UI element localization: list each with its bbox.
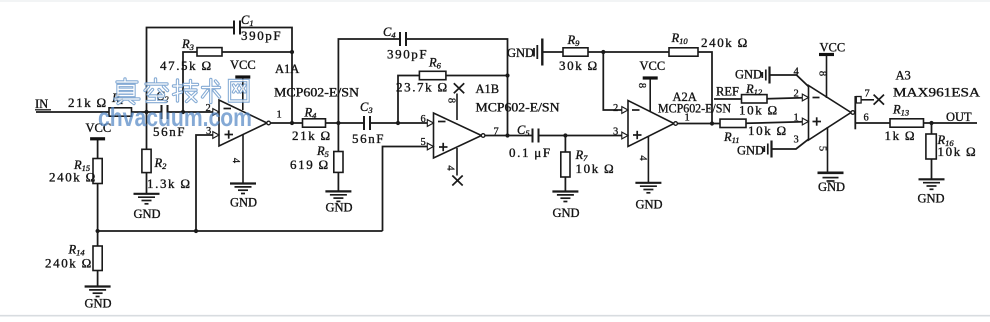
wire R7 to ground xyxy=(564,177,566,192)
svg-text:IN: IN xyxy=(35,97,48,111)
svg-text:3: 3 xyxy=(613,127,618,138)
resistor R5 xyxy=(290,144,343,172)
A3 output bar xyxy=(851,96,855,129)
ground under R16 xyxy=(918,179,945,205)
svg-text:GND: GND xyxy=(230,196,257,210)
svg-text:VCC: VCC xyxy=(640,59,666,73)
svg-text:10k Ω: 10k Ω xyxy=(739,103,779,118)
junction R4-R5-C4 xyxy=(336,121,340,125)
wire C1 feedback left rail xyxy=(147,28,234,113)
VCC supply A2A pin8 xyxy=(636,59,665,112)
resistor R4 xyxy=(292,106,332,144)
wire R15 to bus xyxy=(97,184,99,247)
resistor R2 xyxy=(142,149,192,191)
svg-text:GND: GND xyxy=(85,297,112,311)
A3 pin5 to ground xyxy=(817,127,828,172)
resistor R15 xyxy=(49,158,102,185)
svg-text:1: 1 xyxy=(277,110,282,121)
wire R6 right to rail xyxy=(446,75,508,77)
wire R16 to ground xyxy=(931,159,933,179)
svg-text:30k Ω: 30k Ω xyxy=(559,58,599,73)
junction bus R15-R14 xyxy=(96,229,100,233)
svg-text:GND: GND xyxy=(818,180,845,194)
svg-text:4: 4 xyxy=(637,155,648,161)
svg-text:A3: A3 xyxy=(896,69,911,83)
svg-text:chvacuum.com: chvacuum.com xyxy=(98,102,252,132)
junction R13-R16 xyxy=(929,121,933,125)
resistor R10 xyxy=(669,31,749,56)
resistor R3 xyxy=(160,37,222,73)
junction R3 to rail xyxy=(290,50,294,54)
svg-text:3: 3 xyxy=(794,135,799,146)
junction C5-R7 xyxy=(563,133,567,137)
ground under R7 xyxy=(552,192,579,221)
svg-text:GND: GND xyxy=(507,46,534,60)
ground label A3 pin3 xyxy=(737,141,772,158)
ground under R14 xyxy=(85,287,112,311)
svg-text:4: 4 xyxy=(445,165,456,171)
wire R16 branch xyxy=(931,123,933,134)
VCC supply A1A pin8 xyxy=(230,58,256,110)
svg-text:10k Ω: 10k Ω xyxy=(938,144,978,159)
svg-text:240k Ω: 240k Ω xyxy=(49,170,97,185)
junction R6 rail xyxy=(505,73,509,77)
svg-text:8: 8 xyxy=(817,71,828,76)
wire R5 branch xyxy=(337,123,339,152)
svg-text:GND: GND xyxy=(918,192,945,206)
wire A2A pin2 branch xyxy=(603,52,627,110)
svg-text:5: 5 xyxy=(817,146,828,151)
svg-text:5: 5 xyxy=(421,137,426,148)
wire bias bus bottom xyxy=(98,230,383,232)
junction C3-R6 xyxy=(396,121,400,125)
svg-text:7: 7 xyxy=(865,89,870,100)
svg-text:2: 2 xyxy=(794,89,799,100)
resistor R16 xyxy=(926,133,977,159)
svg-text:4: 4 xyxy=(794,67,800,78)
A3 pin7 no-connect xyxy=(856,89,884,105)
capacitor C1 xyxy=(234,13,282,43)
wire gnd to A3 pin3 xyxy=(773,139,809,149)
svg-text:A1B: A1B xyxy=(476,82,500,96)
wire C3 to A1B pin6 xyxy=(371,122,433,124)
svg-text:10k Ω: 10k Ω xyxy=(748,123,788,138)
wire R9 to R10 xyxy=(588,51,669,53)
wire R1 to C2 xyxy=(132,111,161,113)
junction C4 rail output xyxy=(505,133,509,137)
resistor R12 xyxy=(739,82,779,118)
svg-text:21k Ω: 21k Ω xyxy=(292,128,332,143)
node IN xyxy=(35,97,51,111)
svg-text:MCP602-E/SN: MCP602-E/SN xyxy=(274,86,359,100)
wire C1 to output rail xyxy=(241,28,293,124)
svg-text:390pF: 390pF xyxy=(387,47,428,62)
op-amp A2A xyxy=(613,90,731,147)
svg-text:6: 6 xyxy=(421,114,426,125)
wire C5 to A2A pin3 xyxy=(540,135,628,137)
op-amp A1A xyxy=(206,62,360,146)
VCC supply A3 pin8 xyxy=(817,41,846,99)
svg-text:240k Ω: 240k Ω xyxy=(45,256,93,271)
VCC supply bias divider xyxy=(86,121,112,139)
capacitor C3 xyxy=(352,100,385,146)
svg-text:8: 8 xyxy=(446,98,457,103)
svg-text:1k Ω: 1k Ω xyxy=(885,128,917,143)
svg-text:GND: GND xyxy=(636,198,663,212)
svg-text:GND: GND xyxy=(134,207,161,221)
wire C4 to A1B output rail xyxy=(407,39,508,136)
wire R13 to OUT xyxy=(924,122,978,124)
wire R6 left tap xyxy=(398,76,419,124)
wire C4 feedback left rail xyxy=(338,39,399,123)
resistor R13 xyxy=(885,103,924,144)
A1B pin4 no-connect xyxy=(445,148,463,186)
op-amp A1B xyxy=(421,82,560,158)
ground under R5 xyxy=(325,191,352,214)
svg-text:1: 1 xyxy=(794,113,799,124)
wire bus riser to A1B pin5 xyxy=(383,147,434,232)
svg-text:2: 2 xyxy=(613,103,618,114)
resistor R9 xyxy=(559,33,599,73)
wire R12 to A3 pin2 xyxy=(767,98,803,99)
wire A1A out to R4 xyxy=(270,122,303,124)
svg-text:VCC: VCC xyxy=(230,58,256,72)
wire R10 to down rail xyxy=(698,52,712,124)
svg-text:6: 6 xyxy=(864,113,869,124)
svg-text:7: 7 xyxy=(494,127,499,138)
wire R7 branch xyxy=(564,136,566,153)
svg-text:8: 8 xyxy=(636,83,647,88)
resistor R11 xyxy=(720,119,788,145)
wire R3 right to rail xyxy=(222,51,292,53)
svg-text:REF: REF xyxy=(716,85,739,99)
wire A3 pin6 to R13 xyxy=(855,122,890,124)
svg-text:GND: GND xyxy=(735,68,762,82)
svg-text:56nF: 56nF xyxy=(352,131,385,146)
wire R2 to ground xyxy=(146,173,148,194)
capacitor C4 xyxy=(383,25,428,62)
wire R14 to ground xyxy=(97,271,99,287)
wire VCC to R15 xyxy=(97,140,99,159)
resistor R6 xyxy=(396,56,449,95)
wire A1B out to C5 xyxy=(485,135,532,137)
wire sgnd to R9 xyxy=(542,51,563,53)
ground A3 pin5 xyxy=(818,173,846,194)
junction node R1-R2-C1 xyxy=(144,110,148,114)
A2A pin4 stub xyxy=(637,136,648,183)
wire gnd to A3 pin4 xyxy=(771,75,809,87)
svg-text:10k Ω: 10k Ω xyxy=(576,161,616,176)
svg-text:1.3k Ω: 1.3k Ω xyxy=(147,176,192,191)
A1B pin8 no-connect xyxy=(446,83,465,120)
svg-text:390pF: 390pF xyxy=(241,28,282,43)
svg-text:0.1 μF: 0.1 μF xyxy=(509,145,552,160)
svg-text:47.5k Ω: 47.5k Ω xyxy=(160,58,213,73)
capacitor C5 xyxy=(509,123,552,160)
svg-text:619 Ω: 619 Ω xyxy=(290,157,330,172)
wire R5 to ground xyxy=(337,172,339,191)
svg-text:MCP602-E/SN: MCP602-E/SN xyxy=(658,102,731,116)
svg-text:OUT: OUT xyxy=(946,110,972,124)
wire A2A out to R11 xyxy=(677,123,720,125)
junction rail to output xyxy=(290,121,294,125)
resistor R7 xyxy=(561,148,615,177)
ground under R2 xyxy=(134,194,161,221)
capacitor C2 xyxy=(153,89,186,139)
comparator A3 xyxy=(794,67,981,146)
resistor R14 xyxy=(45,243,102,271)
wire C2 to A1A pin2 xyxy=(169,111,219,113)
svg-text:GND: GND xyxy=(553,206,580,220)
wire R2 branch down xyxy=(146,112,148,149)
wire R3 left tap xyxy=(183,52,197,112)
ground A2A pin4 xyxy=(635,183,662,212)
svg-text:GND: GND xyxy=(737,144,764,158)
svg-text:A1A: A1A xyxy=(275,62,299,76)
svg-text:4: 4 xyxy=(230,158,241,164)
svg-text:VCC: VCC xyxy=(820,41,846,55)
svg-text:240k Ω: 240k Ω xyxy=(701,35,749,50)
svg-text:MAX961ESA: MAX961ESA xyxy=(893,86,980,100)
svg-text:GND: GND xyxy=(326,201,353,215)
A1A pin4 stub xyxy=(230,134,243,183)
wire IN input xyxy=(36,111,109,113)
junction bus A1A pin3 xyxy=(194,229,198,233)
wire R4 to C3 xyxy=(326,122,364,124)
wire REF to R12 xyxy=(714,98,742,100)
ground A1A pin4 xyxy=(230,184,257,210)
ground label R9 left xyxy=(507,39,542,66)
svg-text:23.7k Ω: 23.7k Ω xyxy=(396,80,449,95)
junction node R3 tap xyxy=(181,110,185,114)
junction R9-A2A pin2 xyxy=(601,50,605,54)
resistor R1 xyxy=(68,91,132,116)
svg-text:MCP602-E/SN: MCP602-E/SN xyxy=(476,101,560,115)
wire A1A pin3 stub xyxy=(196,135,219,231)
wire R11 to A3 pin1 xyxy=(746,122,803,124)
ground label A3 pin4 xyxy=(735,67,770,84)
junction R10 rail to output xyxy=(710,121,714,125)
